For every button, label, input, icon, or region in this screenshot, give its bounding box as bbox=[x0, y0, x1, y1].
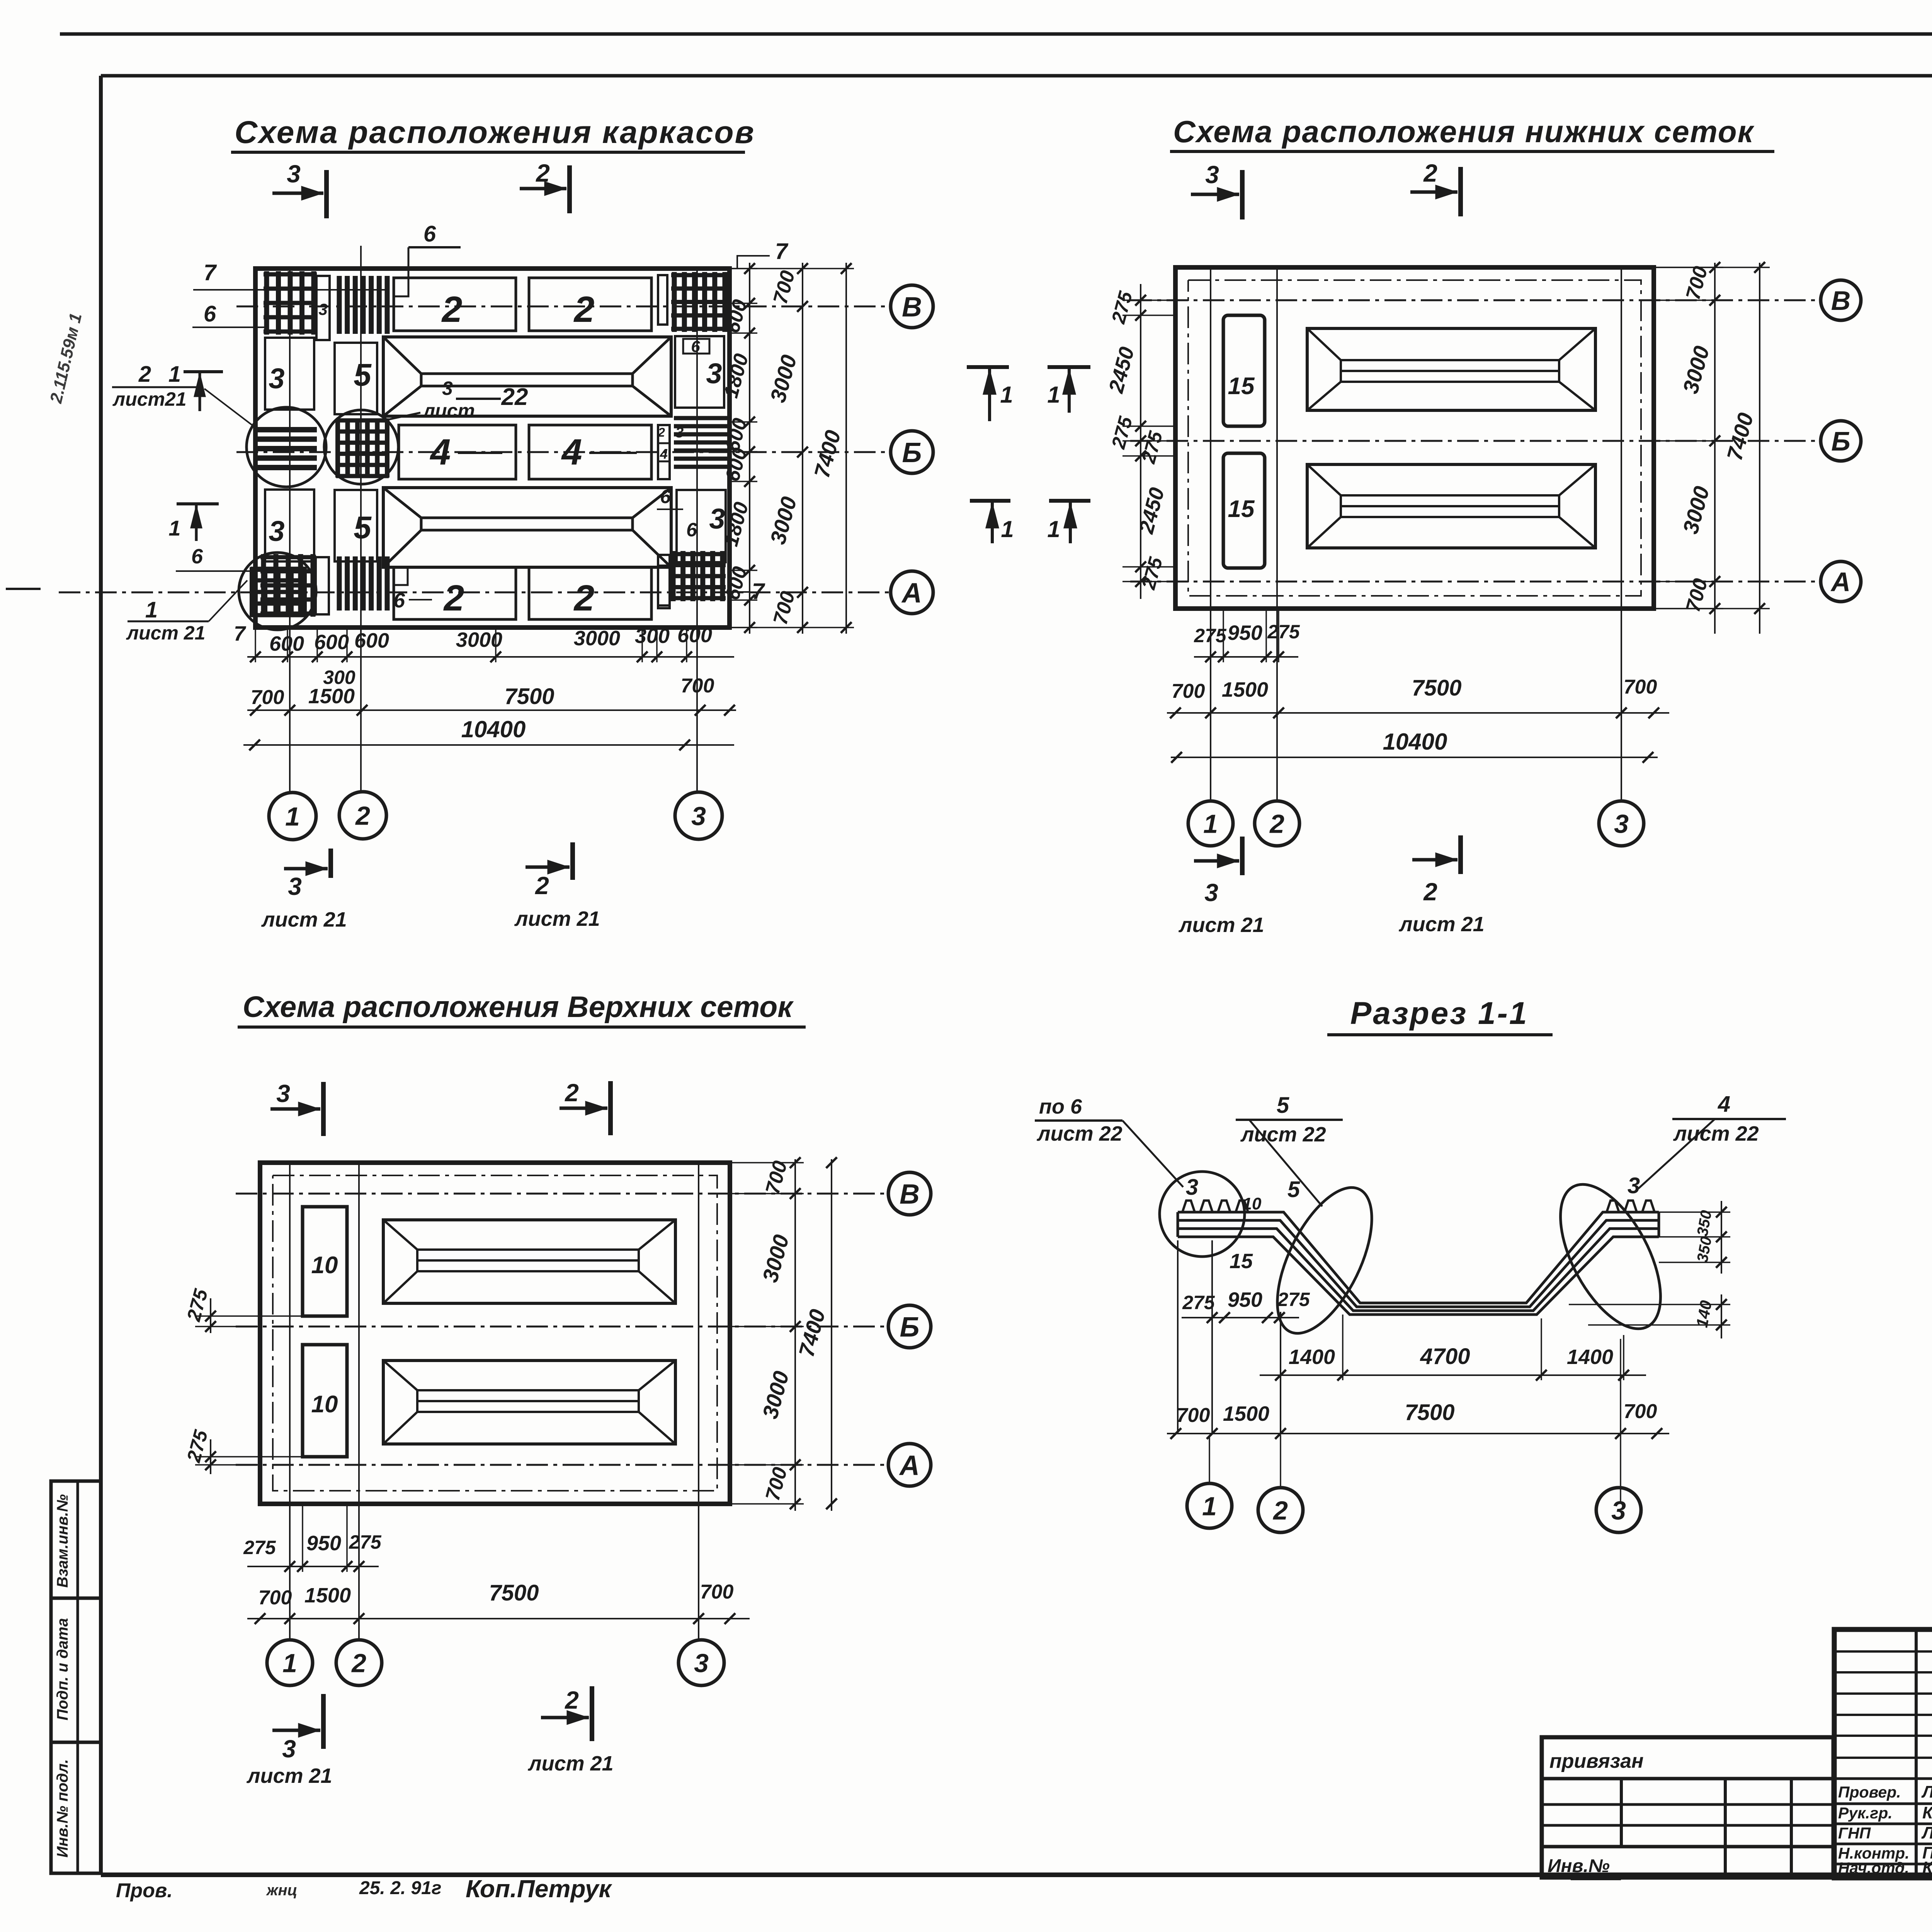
svg-text:7500: 7500 bbox=[1405, 1400, 1454, 1425]
svg-text:Подп. и дата: Подп. и дата bbox=[54, 1618, 71, 1721]
svg-text:Б: Б bbox=[1831, 426, 1850, 456]
svg-text:10: 10 bbox=[311, 1391, 338, 1418]
svg-text:2: 2 bbox=[355, 801, 370, 830]
svg-text:Лоуцкер: Лоуцкер bbox=[1921, 1823, 1932, 1842]
svg-text:лист 21: лист 21 bbox=[126, 622, 205, 644]
svg-text:2: 2 bbox=[565, 1079, 579, 1107]
svg-text:ГНП: ГНП bbox=[1838, 1824, 1871, 1842]
svg-text:2: 2 bbox=[565, 1686, 579, 1714]
svg-text:1400: 1400 bbox=[1289, 1345, 1335, 1369]
svg-text:по 6: по 6 bbox=[1039, 1095, 1082, 1118]
svg-text:2: 2 bbox=[658, 425, 665, 439]
svg-text:1: 1 bbox=[1202, 1492, 1217, 1521]
svg-text:3: 3 bbox=[1186, 1175, 1198, 1200]
svg-text:Разрез 1-1: Разрез 1-1 bbox=[1350, 996, 1529, 1031]
svg-text:Инв.№: Инв.№ bbox=[1548, 1856, 1610, 1876]
svg-text:3: 3 bbox=[1614, 809, 1629, 838]
svg-text:Провер.: Провер. bbox=[1838, 1783, 1901, 1801]
svg-text:Б: Б bbox=[900, 1312, 920, 1343]
svg-text:15: 15 bbox=[1230, 1250, 1253, 1273]
svg-text:600: 600 bbox=[354, 629, 389, 652]
svg-text:2: 2 bbox=[443, 578, 464, 619]
svg-text:Б: Б bbox=[902, 437, 922, 468]
svg-text:15: 15 bbox=[1228, 496, 1255, 522]
svg-text:7: 7 bbox=[204, 260, 217, 285]
svg-text:600: 600 bbox=[677, 624, 712, 647]
svg-text:В: В bbox=[1831, 286, 1851, 316]
svg-text:лист: лист bbox=[422, 400, 475, 422]
svg-text:700: 700 bbox=[700, 1581, 734, 1603]
svg-text:1500: 1500 bbox=[304, 1584, 351, 1607]
svg-text:3: 3 bbox=[287, 160, 301, 188]
svg-text:700: 700 bbox=[1172, 680, 1205, 702]
svg-text:5: 5 bbox=[1287, 1177, 1300, 1202]
svg-text:лист 21: лист 21 bbox=[514, 907, 600, 930]
svg-text:Рук.гр.: Рук.гр. bbox=[1838, 1804, 1893, 1822]
svg-text:4: 4 bbox=[660, 446, 668, 462]
svg-text:6: 6 bbox=[686, 519, 697, 541]
svg-text:3: 3 bbox=[706, 357, 722, 389]
svg-text:3: 3 bbox=[276, 1080, 290, 1107]
svg-text:1: 1 bbox=[1047, 516, 1060, 542]
svg-text:3000: 3000 bbox=[456, 628, 502, 651]
svg-text:275: 275 bbox=[1182, 1292, 1215, 1313]
svg-text:Нач.отд.: Нач.отд. bbox=[1838, 1859, 1909, 1877]
svg-text:3: 3 bbox=[1205, 161, 1219, 189]
svg-text:1: 1 bbox=[1000, 382, 1013, 408]
svg-text:4: 4 bbox=[430, 432, 451, 473]
svg-text:700: 700 bbox=[1177, 1404, 1210, 1427]
svg-text:5: 5 bbox=[354, 510, 372, 545]
svg-text:25. 2. 91г: 25. 2. 91г bbox=[359, 1878, 441, 1898]
svg-text:10400: 10400 bbox=[1383, 729, 1447, 755]
svg-text:6: 6 bbox=[393, 589, 405, 612]
svg-text:275: 275 bbox=[1194, 625, 1227, 646]
svg-text:лист 21: лист 21 bbox=[1178, 913, 1264, 937]
svg-text:275: 275 bbox=[243, 1537, 276, 1558]
svg-text:15: 15 bbox=[1228, 373, 1255, 400]
svg-text:Схема расположения Верхних сет: Схема расположения Верхних сеток bbox=[243, 990, 794, 1024]
svg-text:1500: 1500 bbox=[1222, 678, 1268, 701]
svg-text:Взам.инв.№: Взам.инв.№ bbox=[54, 1494, 71, 1588]
svg-text:2: 2 bbox=[1423, 878, 1437, 906]
svg-text:3: 3 bbox=[694, 1648, 709, 1678]
svg-text:5: 5 bbox=[1277, 1093, 1289, 1118]
svg-text:3: 3 bbox=[269, 362, 284, 395]
svg-text:10400: 10400 bbox=[461, 716, 526, 742]
svg-text:7500: 7500 bbox=[1412, 675, 1461, 701]
svg-text:лист 22: лист 22 bbox=[1036, 1122, 1122, 1145]
svg-text:1: 1 bbox=[1203, 809, 1218, 838]
svg-text:275: 275 bbox=[1277, 1289, 1310, 1310]
svg-text:275: 275 bbox=[1267, 621, 1300, 643]
svg-text:6: 6 bbox=[423, 221, 436, 247]
svg-text:2: 2 bbox=[573, 289, 595, 330]
svg-text:В: В bbox=[902, 292, 922, 323]
svg-text:2: 2 bbox=[1423, 159, 1437, 187]
svg-text:2: 2 bbox=[573, 578, 595, 619]
svg-text:1: 1 bbox=[145, 597, 158, 622]
svg-text:лист 22: лист 22 bbox=[1673, 1122, 1759, 1145]
svg-text:700: 700 bbox=[1624, 676, 1657, 698]
svg-text:Краснова: Краснова bbox=[1922, 1803, 1932, 1822]
svg-text:А: А bbox=[899, 1450, 920, 1481]
svg-text:1: 1 bbox=[1047, 382, 1060, 408]
svg-text:600: 600 bbox=[269, 632, 304, 655]
svg-text:22: 22 bbox=[501, 384, 528, 410]
svg-text:лист 21: лист 21 bbox=[1398, 913, 1485, 936]
svg-text:Красавин: Красавин bbox=[1922, 1858, 1932, 1877]
svg-text:7: 7 bbox=[234, 622, 247, 645]
svg-text:5: 5 bbox=[354, 357, 372, 393]
svg-text:4: 4 bbox=[1718, 1092, 1730, 1117]
svg-text:Пров.: Пров. bbox=[116, 1879, 173, 1902]
svg-text:6: 6 bbox=[204, 301, 216, 327]
svg-text:В: В bbox=[900, 1179, 920, 1210]
svg-text:2: 2 bbox=[1272, 1496, 1288, 1525]
svg-text:10: 10 bbox=[1243, 1194, 1262, 1213]
svg-text:1500: 1500 bbox=[1223, 1402, 1269, 1425]
svg-text:2: 2 bbox=[536, 159, 550, 187]
svg-text:лист 21: лист 21 bbox=[261, 908, 347, 931]
svg-text:лист 21: лист 21 bbox=[527, 1752, 614, 1775]
svg-text:1: 1 bbox=[168, 362, 181, 387]
svg-text:1: 1 bbox=[282, 1648, 297, 1678]
svg-text:700: 700 bbox=[1624, 1400, 1657, 1423]
svg-text:3: 3 bbox=[691, 801, 706, 831]
svg-text:7500: 7500 bbox=[489, 1580, 539, 1605]
svg-text:А: А bbox=[901, 578, 922, 609]
svg-text:Коп.Петрук: Коп.Петрук bbox=[466, 1875, 612, 1903]
svg-text:Лоуцкер: Лоуцкер bbox=[1921, 1782, 1932, 1801]
svg-text:1400: 1400 bbox=[1567, 1345, 1613, 1369]
svg-text:7: 7 bbox=[775, 239, 789, 264]
svg-text:3: 3 bbox=[1611, 1496, 1626, 1525]
svg-text:лист21: лист21 bbox=[112, 388, 187, 410]
svg-text:Схема расположения нижних се: Схема расположения нижних сеток bbox=[1173, 114, 1755, 149]
svg-text:600: 600 bbox=[314, 631, 349, 654]
svg-text:6: 6 bbox=[691, 337, 700, 355]
svg-text:3: 3 bbox=[709, 503, 725, 535]
svg-text:А: А bbox=[1830, 567, 1851, 597]
svg-text:950: 950 bbox=[1228, 1288, 1262, 1311]
svg-text:привязан: привязан bbox=[1549, 1750, 1644, 1772]
svg-text:950: 950 bbox=[306, 1532, 341, 1555]
svg-text:1: 1 bbox=[1001, 516, 1014, 542]
svg-text:7500: 7500 bbox=[504, 684, 554, 709]
svg-text:2: 2 bbox=[441, 289, 463, 330]
svg-text:1: 1 bbox=[285, 802, 300, 831]
svg-text:3000: 3000 bbox=[574, 627, 620, 650]
svg-text:700: 700 bbox=[681, 675, 714, 697]
svg-text:950: 950 bbox=[1228, 621, 1262, 645]
svg-text:275: 275 bbox=[349, 1531, 382, 1553]
svg-text:1500: 1500 bbox=[308, 685, 355, 708]
svg-text:2: 2 bbox=[1269, 809, 1284, 838]
svg-text:3: 3 bbox=[1204, 879, 1218, 906]
svg-text:700: 700 bbox=[259, 1587, 292, 1609]
svg-text:3: 3 bbox=[318, 300, 327, 318]
svg-text:3: 3 bbox=[1628, 1173, 1640, 1198]
svg-text:3: 3 bbox=[269, 515, 284, 547]
svg-text:3: 3 bbox=[282, 1735, 296, 1763]
svg-text:2: 2 bbox=[351, 1648, 366, 1678]
svg-text:2: 2 bbox=[138, 362, 151, 387]
svg-text:лист 21: лист 21 bbox=[246, 1764, 332, 1787]
svg-text:4: 4 bbox=[561, 432, 582, 473]
svg-text:6: 6 bbox=[191, 545, 203, 568]
svg-text:3: 3 bbox=[288, 872, 302, 900]
svg-text:Инв.№ подл.: Инв.№ подл. bbox=[54, 1759, 71, 1858]
svg-text:4700: 4700 bbox=[1420, 1344, 1470, 1369]
svg-text:Схема расположения каркасов: Схема расположения каркасов bbox=[235, 115, 755, 150]
svg-text:10: 10 bbox=[311, 1252, 338, 1279]
svg-text:700: 700 bbox=[251, 686, 284, 709]
svg-text:2: 2 bbox=[535, 872, 549, 900]
svg-text:1: 1 bbox=[168, 516, 180, 540]
svg-text:300: 300 bbox=[635, 624, 670, 648]
svg-text:лист 22: лист 22 bbox=[1240, 1123, 1326, 1146]
svg-text:3: 3 bbox=[442, 378, 453, 399]
svg-text:6: 6 bbox=[660, 486, 671, 507]
svg-text:жнц: жнц bbox=[266, 1882, 297, 1899]
